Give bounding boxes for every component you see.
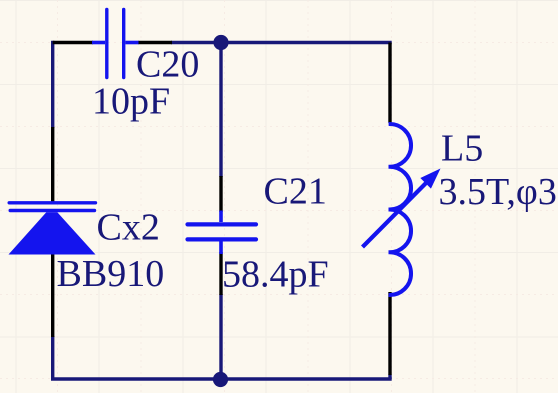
junction node: top (navy dot) [213, 35, 228, 50]
pin stub: C20 left lead outer (black) [53, 41, 93, 44]
svg-text:BB910: BB910 [57, 253, 165, 295]
wire: right vertical corner bit (navy) [388, 375, 391, 380]
svg-text:C21: C21 [264, 171, 327, 213]
wire: left vertical lower + bottom horizontal (navy) [53, 336, 392, 379]
svg-text:C20: C20 [136, 44, 199, 86]
svg-text:58.4pF: 58.4pF [222, 253, 329, 295]
pin stub: L5 top lead (black) [388, 43, 391, 124]
varactor diode Cx2 symbol (blue) [9, 203, 96, 255]
pin stub: C20 right lead outer (black) [138, 41, 172, 44]
junction node: bottom (navy dot) [213, 372, 228, 387]
wire: middle vertical lower (navy) [219, 294, 222, 380]
pin stub: L5 bottom lead (black) [388, 292, 391, 375]
inductor L5 coil arcs (blue) [389, 124, 411, 295]
pin stub: varactor top lead (black) [51, 127, 54, 203]
inductor L5 adjustment arrow (blue) [363, 169, 441, 248]
pin stub: C21 bottom lead outer (black) [219, 252, 222, 295]
svg-text:Cx2: Cx2 [97, 207, 160, 249]
pin stub: varactor bottom lead (black) [51, 253, 54, 337]
svg-text:10pF: 10pF [92, 81, 170, 123]
pin stub: C21 top lead outer (black) [219, 176, 222, 212]
wire: left vertical upper (navy) [51, 41, 54, 128]
svg-text:3.5T,φ3: 3.5T,φ3 [439, 171, 557, 213]
wire: top horizontal net (navy) from C20 right stub to top-right corner [171, 41, 392, 44]
svg-text:L5: L5 [441, 128, 483, 170]
capacitor C20 symbol (blue) [92, 10, 139, 78]
capacitor C21 symbol (blue) [188, 211, 257, 255]
wire: middle vertical upper (navy) [219, 43, 222, 178]
